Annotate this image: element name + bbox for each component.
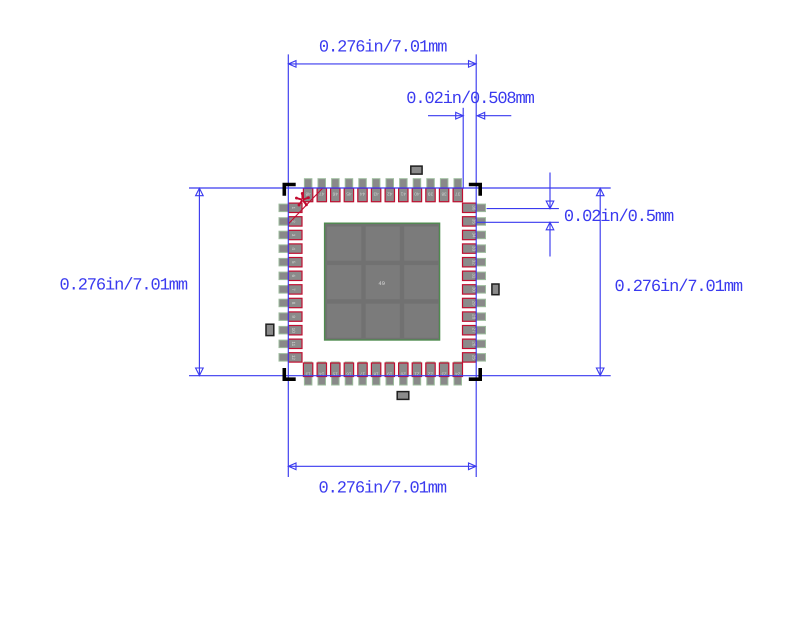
pad land pin 33 (right) — [463, 245, 486, 253]
lead pin 22 (bottom) — [426, 363, 435, 377]
corner bracket top-left — [283, 183, 296, 196]
lead pin 47 (top) — [317, 188, 326, 202]
lead pin 28 (right) — [463, 312, 477, 321]
pad land pin 29 (right) — [463, 299, 486, 307]
pad land pin 22 (bottom) — [427, 362, 435, 385]
thermal pad 49 — [325, 223, 440, 340]
marker rect bottom — [397, 392, 409, 400]
corner bracket bottom-right — [469, 368, 482, 381]
pad land pin 11 (left) — [279, 340, 302, 348]
svg-text:0.02in/0.508mm: 0.02in/0.508mm — [406, 90, 534, 109]
lead pin 48 (top) — [303, 188, 312, 202]
pad land pin 23 (bottom) — [440, 362, 448, 385]
lead pin 42 (top) — [385, 188, 394, 202]
lead pin 35 (right) — [463, 217, 477, 226]
pad land pin 18 (bottom) — [372, 362, 380, 385]
pad land pin 24 (bottom) — [454, 362, 462, 385]
lead pin 34 (right) — [463, 230, 477, 239]
arrowhead top-right — [469, 61, 477, 68]
pad land pin 28 (right) — [463, 313, 486, 321]
paste square 2-1 — [327, 265, 361, 299]
svg-text:9: 9 — [291, 315, 296, 318]
svg-text:0.276in/7.01mm: 0.276in/7.01mm — [319, 39, 447, 58]
pad land pin 17 (bottom) — [359, 362, 367, 385]
svg-text:10: 10 — [291, 328, 296, 334]
extension line pin 36 center — [487, 208, 559, 210]
lead pin 12 (left) — [289, 353, 303, 362]
paste square 2-3 — [404, 265, 438, 299]
pad land pin 5 (left) — [279, 258, 302, 266]
svg-text:0.276in/7.01mm: 0.276in/7.01mm — [319, 480, 447, 499]
pad land pin 26 (right) — [463, 340, 486, 348]
extension line left edge — [287, 54, 289, 477]
dimension line top 7.01mm — [288, 63, 476, 65]
lead pin 32 (right) — [463, 258, 477, 267]
paste square 1-3 — [404, 227, 438, 261]
pad land pin 46 (top) — [332, 179, 340, 202]
corner bracket top-right — [469, 183, 482, 196]
pad land pin 43 (top) — [372, 179, 380, 202]
lead pin 30 (right) — [463, 285, 477, 294]
pad land pin 36 (right) — [463, 204, 486, 212]
svg-text:40: 40 — [414, 192, 420, 197]
svg-text:43: 43 — [373, 192, 379, 197]
arrowhead bottom-right — [469, 463, 477, 470]
pad land pin 20 (bottom) — [400, 362, 408, 385]
arrowhead 0.5 lower — [546, 222, 554, 230]
pad land pin 8 (left) — [279, 299, 302, 307]
lead pin 8 (left) — [289, 298, 303, 307]
lead pin 6 (left) — [289, 271, 303, 280]
svg-text:49: 49 — [378, 280, 385, 287]
svg-text:44: 44 — [360, 192, 366, 197]
marker rect top — [411, 166, 422, 174]
lead pin 15 (bottom) — [331, 363, 340, 377]
svg-text:12: 12 — [291, 355, 296, 361]
pad land pin 37 (top) — [454, 179, 462, 202]
paste square 1-1 — [327, 227, 361, 261]
pad land pin 2 (left) — [279, 218, 302, 226]
arrowhead left-top — [196, 188, 204, 196]
lead pin 24 (bottom) — [453, 363, 462, 377]
paste square 2-2 — [366, 265, 400, 299]
pad land pin 41 (top) — [400, 179, 408, 202]
dimension line right 7.01mm — [599, 188, 601, 376]
lead pin 31 (right) — [463, 271, 477, 280]
pad land pin 12 (left) — [279, 354, 302, 362]
lead pin 29 (right) — [463, 298, 477, 307]
lead pin 36 (right) — [463, 203, 477, 212]
extension line top edge — [189, 187, 611, 189]
svg-text:11: 11 — [291, 341, 296, 346]
svg-text:0.276in/7.01mm: 0.276in/7.01mm — [60, 277, 188, 296]
pad land pin 39 (top) — [427, 179, 435, 202]
extension line pin 35 center — [477, 221, 559, 223]
lead pin 14 (bottom) — [317, 363, 326, 377]
arrowhead right-top — [596, 188, 604, 196]
svg-text:0.02in/0.5mm: 0.02in/0.5mm — [564, 208, 674, 227]
lead pin 20 (bottom) — [399, 363, 408, 377]
arrowhead bottom-left — [289, 463, 297, 470]
lead pin 16 (bottom) — [344, 363, 353, 377]
pad land pin 10 (left) — [279, 326, 302, 334]
lead pin 39 (top) — [426, 188, 435, 202]
svg-text:47: 47 — [319, 192, 325, 197]
svg-text:37: 37 — [455, 192, 461, 197]
lead pin 46 (top) — [331, 188, 340, 202]
lead pin 4 (left) — [289, 244, 303, 253]
lead pin 1 (left) — [289, 203, 303, 212]
lead pin 17 (bottom) — [358, 363, 367, 377]
pad land pin 6 (left) — [279, 272, 302, 280]
extension line right edge — [475, 54, 477, 477]
lead pin 3 (left) — [289, 230, 303, 239]
lead pin 19 (bottom) — [385, 363, 394, 377]
pad land pin 35 (right) — [463, 218, 486, 226]
pad land pin 1 (left) — [279, 204, 302, 212]
pin-1 chamfer line — [289, 188, 323, 224]
lead pin 27 (right) — [463, 326, 477, 335]
arrowhead top-left — [289, 61, 297, 68]
pad land pin 45 (top) — [345, 179, 353, 202]
pad land pin 7 (left) — [279, 286, 302, 294]
pad land pin 32 (right) — [463, 258, 486, 266]
svg-text:38: 38 — [441, 192, 447, 197]
pad land pin 14 (bottom) — [318, 362, 326, 385]
pad land pin 27 (right) — [463, 326, 486, 334]
arrowhead 0.508 left — [456, 112, 464, 119]
dimension line 0.5mm lower segment — [549, 222, 551, 256]
corner bracket bottom-left — [283, 368, 296, 381]
pad land pin 42 (top) — [386, 179, 394, 202]
dimension line bottom 7.01mm — [288, 465, 476, 467]
lead pin 38 (top) — [439, 188, 448, 202]
pad land pin 19 (bottom) — [386, 362, 394, 385]
lead pin 5 (left) — [289, 258, 303, 267]
paste square 3-1 — [327, 304, 361, 338]
svg-text:4: 4 — [291, 247, 296, 250]
pad land pin 40 (top) — [413, 179, 421, 202]
dimension line 0.5mm upper segment — [549, 173, 551, 209]
lead pin 26 (right) — [463, 339, 477, 348]
svg-text:7: 7 — [291, 288, 296, 291]
pad land pin 3 (left) — [279, 231, 302, 239]
pad land pin 25 (right) — [463, 354, 486, 362]
pad land pin 48 (top) — [304, 179, 312, 202]
arrowhead 0.5 upper — [546, 201, 554, 209]
paste square 3-3 — [404, 304, 438, 338]
arrowhead right-bottom — [596, 368, 604, 376]
pad land pin 47 (top) — [318, 179, 326, 202]
svg-text:46: 46 — [332, 192, 338, 197]
lead pin 37 (top) — [453, 188, 462, 202]
arrowhead 0.508 right — [477, 112, 485, 119]
marker rect left — [266, 324, 274, 335]
dimension line 0.508mm left segment — [428, 115, 463, 117]
lead pin 44 (top) — [358, 188, 367, 202]
lead pin 45 (top) — [344, 188, 353, 202]
lead pin 41 (top) — [399, 188, 408, 202]
paste square 3-2 — [366, 304, 400, 338]
pad land pin 38 (top) — [440, 179, 448, 202]
extension line pad 37 edge — [462, 108, 464, 189]
lead pin 18 (bottom) — [371, 363, 380, 377]
svg-text:39: 39 — [428, 192, 434, 197]
lead pin 43 (top) — [371, 188, 380, 202]
lead pin 11 (left) — [289, 339, 303, 348]
pad land pin 44 (top) — [359, 179, 367, 202]
pad land pin 31 (right) — [463, 272, 486, 280]
lead pin 10 (left) — [289, 326, 303, 335]
svg-text:48: 48 — [305, 192, 311, 197]
svg-text:6: 6 — [291, 275, 296, 278]
pad land pin 4 (left) — [279, 245, 302, 253]
pin-1 asterisk marker — [296, 194, 308, 206]
lead pin 21 (bottom) — [412, 363, 421, 377]
arrowhead left-bottom — [196, 368, 204, 376]
lead pin 25 (right) — [463, 353, 477, 362]
svg-text:41: 41 — [400, 192, 406, 197]
pad land pin 30 (right) — [463, 286, 486, 294]
svg-text:42: 42 — [387, 192, 393, 197]
pad land pin 21 (bottom) — [413, 362, 421, 385]
pad land pin 15 (bottom) — [332, 362, 340, 385]
dimension line left 7.01mm — [198, 188, 200, 376]
pad land pin 9 (left) — [279, 313, 302, 321]
lead pin 13 (bottom) — [303, 363, 312, 377]
lead pin 7 (left) — [289, 285, 303, 294]
svg-text:0.276in/7.01mm: 0.276in/7.01mm — [615, 278, 743, 297]
svg-text:45: 45 — [346, 192, 352, 197]
dimension line 0.508mm right segment — [477, 115, 511, 117]
pad land pin 13 (bottom) — [304, 362, 312, 385]
svg-text:8: 8 — [291, 302, 296, 305]
lead pin 33 (right) — [463, 244, 477, 253]
pad land pin 34 (right) — [463, 231, 486, 239]
lead pin 23 (bottom) — [439, 363, 448, 377]
marker rect right — [492, 284, 499, 295]
lead pin 9 (left) — [289, 312, 303, 321]
svg-text:5: 5 — [291, 261, 296, 264]
extension line bottom edge — [189, 375, 611, 377]
lead pin 2 (left) — [289, 217, 303, 226]
svg-text:1: 1 — [291, 207, 296, 210]
svg-text:3: 3 — [291, 234, 296, 237]
lead pin 40 (top) — [412, 188, 421, 202]
paste square 1-2 — [366, 227, 400, 261]
pad land pin 16 (bottom) — [345, 362, 353, 385]
